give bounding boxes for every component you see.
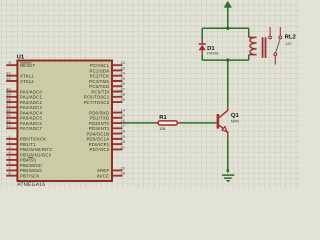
svg-text:38: 38 [6, 98, 11, 102]
svg-text:PB0/T0/XCK: PB0/T0/XCK [20, 137, 46, 142]
svg-text:5: 5 [9, 156, 11, 160]
svg-text:14: 14 [121, 108, 126, 112]
svg-text:PD3/INT1: PD3/INT1 [89, 126, 110, 131]
svg-text:PD7/OC2: PD7/OC2 [90, 147, 110, 152]
svg-text:PC7/TOSC2: PC7/TOSC2 [84, 100, 110, 105]
svg-text:8: 8 [9, 172, 11, 176]
svg-text:PC5/TDI: PC5/TDI [91, 89, 109, 94]
svg-text:PB7/SCK: PB7/SCK [20, 174, 40, 179]
svg-text:PD2/INT0: PD2/INT0 [89, 121, 110, 126]
svg-text:PA4/ADC4: PA4/ADC4 [20, 110, 42, 115]
svg-text:PA2/ADC2: PA2/ADC2 [20, 100, 42, 105]
svg-text:19: 19 [121, 135, 126, 139]
svg-text:15: 15 [121, 114, 126, 118]
svg-text:AREF: AREF [97, 168, 109, 173]
svg-text:PD1/TXD: PD1/TXD [90, 116, 110, 121]
svg-text:2: 2 [9, 140, 11, 144]
svg-text:17: 17 [121, 124, 126, 128]
svg-text:30: 30 [121, 172, 126, 176]
svg-text:PC3/TMS: PC3/TMS [89, 79, 109, 84]
svg-text:PD0/RXD: PD0/RXD [89, 110, 109, 115]
svg-text:21: 21 [121, 145, 126, 149]
svg-text:12: 12 [6, 77, 11, 81]
svg-text:PA1/ADC1: PA1/ADC1 [20, 95, 42, 100]
svg-text:PA5/ADC5: PA5/ADC5 [20, 116, 42, 121]
svg-text:39: 39 [6, 93, 11, 97]
svg-text:PB5/MOSI: PB5/MOSI [20, 163, 42, 168]
svg-text:RL2: RL2 [285, 34, 297, 41]
svg-text:PC4/TDO: PC4/TDO [89, 84, 109, 89]
svg-text:NPN: NPN [231, 119, 239, 124]
svg-text:DIODE: DIODE [207, 52, 219, 56]
svg-text:32: 32 [121, 166, 126, 170]
svg-text:22: 22 [121, 61, 126, 65]
svg-text:1: 1 [9, 135, 11, 139]
svg-text:R1: R1 [159, 114, 167, 121]
svg-text:35: 35 [6, 114, 11, 118]
svg-text:XTAL1: XTAL1 [20, 74, 34, 79]
svg-text:PB2/AIN0/INT2: PB2/AIN0/INT2 [20, 147, 52, 152]
svg-text:28: 28 [121, 93, 126, 97]
svg-text:PD5/OC1A: PD5/OC1A [86, 137, 109, 142]
svg-text:PC2/TCK: PC2/TCK [90, 74, 110, 79]
svg-text:PA3/ADC3: PA3/ADC3 [20, 105, 42, 110]
svg-text:PB1/T1: PB1/T1 [20, 142, 36, 147]
svg-text:40: 40 [6, 87, 11, 91]
svg-text:27: 27 [121, 87, 126, 91]
svg-text:3: 3 [9, 145, 11, 149]
svg-text:PB4/SS: PB4/SS [20, 158, 36, 163]
svg-text:PA6/ADC6: PA6/ADC6 [20, 121, 42, 126]
svg-text:6: 6 [9, 161, 11, 165]
svg-text:RESET: RESET [20, 63, 36, 68]
svg-text:25: 25 [121, 77, 126, 81]
svg-text:PB6/MISO: PB6/MISO [20, 168, 42, 173]
svg-text:4: 4 [9, 151, 11, 155]
svg-text:AVCC: AVCC [97, 174, 109, 179]
svg-text:9: 9 [9, 61, 11, 65]
svg-text:XTAL2: XTAL2 [20, 79, 34, 84]
svg-text:PD4/OC1B: PD4/OC1B [86, 131, 109, 136]
svg-text:20: 20 [121, 140, 126, 144]
svg-text:10k: 10k [159, 126, 165, 131]
svg-text:34: 34 [6, 119, 11, 123]
svg-text:13: 13 [6, 72, 11, 76]
svg-text:23: 23 [121, 66, 126, 70]
svg-text:PC6/TOSC1: PC6/TOSC1 [84, 95, 110, 100]
svg-text:12V: 12V [285, 42, 292, 46]
svg-text:18: 18 [121, 130, 126, 134]
svg-text:33: 33 [6, 124, 11, 128]
svg-text:ATMEGA16: ATMEGA16 [17, 182, 45, 188]
svg-text:37: 37 [6, 103, 11, 107]
svg-text:U1: U1 [17, 53, 25, 60]
svg-text:PA0/ADC0: PA0/ADC0 [20, 89, 42, 94]
svg-text:7: 7 [9, 166, 11, 170]
svg-text:26: 26 [121, 82, 126, 86]
svg-text:36: 36 [6, 108, 11, 112]
svg-text:PC1/SDA: PC1/SDA [90, 68, 110, 73]
svg-text:PA7/ADC7: PA7/ADC7 [20, 126, 42, 131]
svg-text:PC0/SCL: PC0/SCL [90, 63, 110, 68]
svg-text:29: 29 [121, 98, 126, 102]
svg-text:PB3/AIN1/OC0: PB3/AIN1/OC0 [20, 152, 52, 157]
svg-text:PD6/ICP1: PD6/ICP1 [89, 142, 110, 147]
svg-text:24: 24 [121, 72, 126, 76]
